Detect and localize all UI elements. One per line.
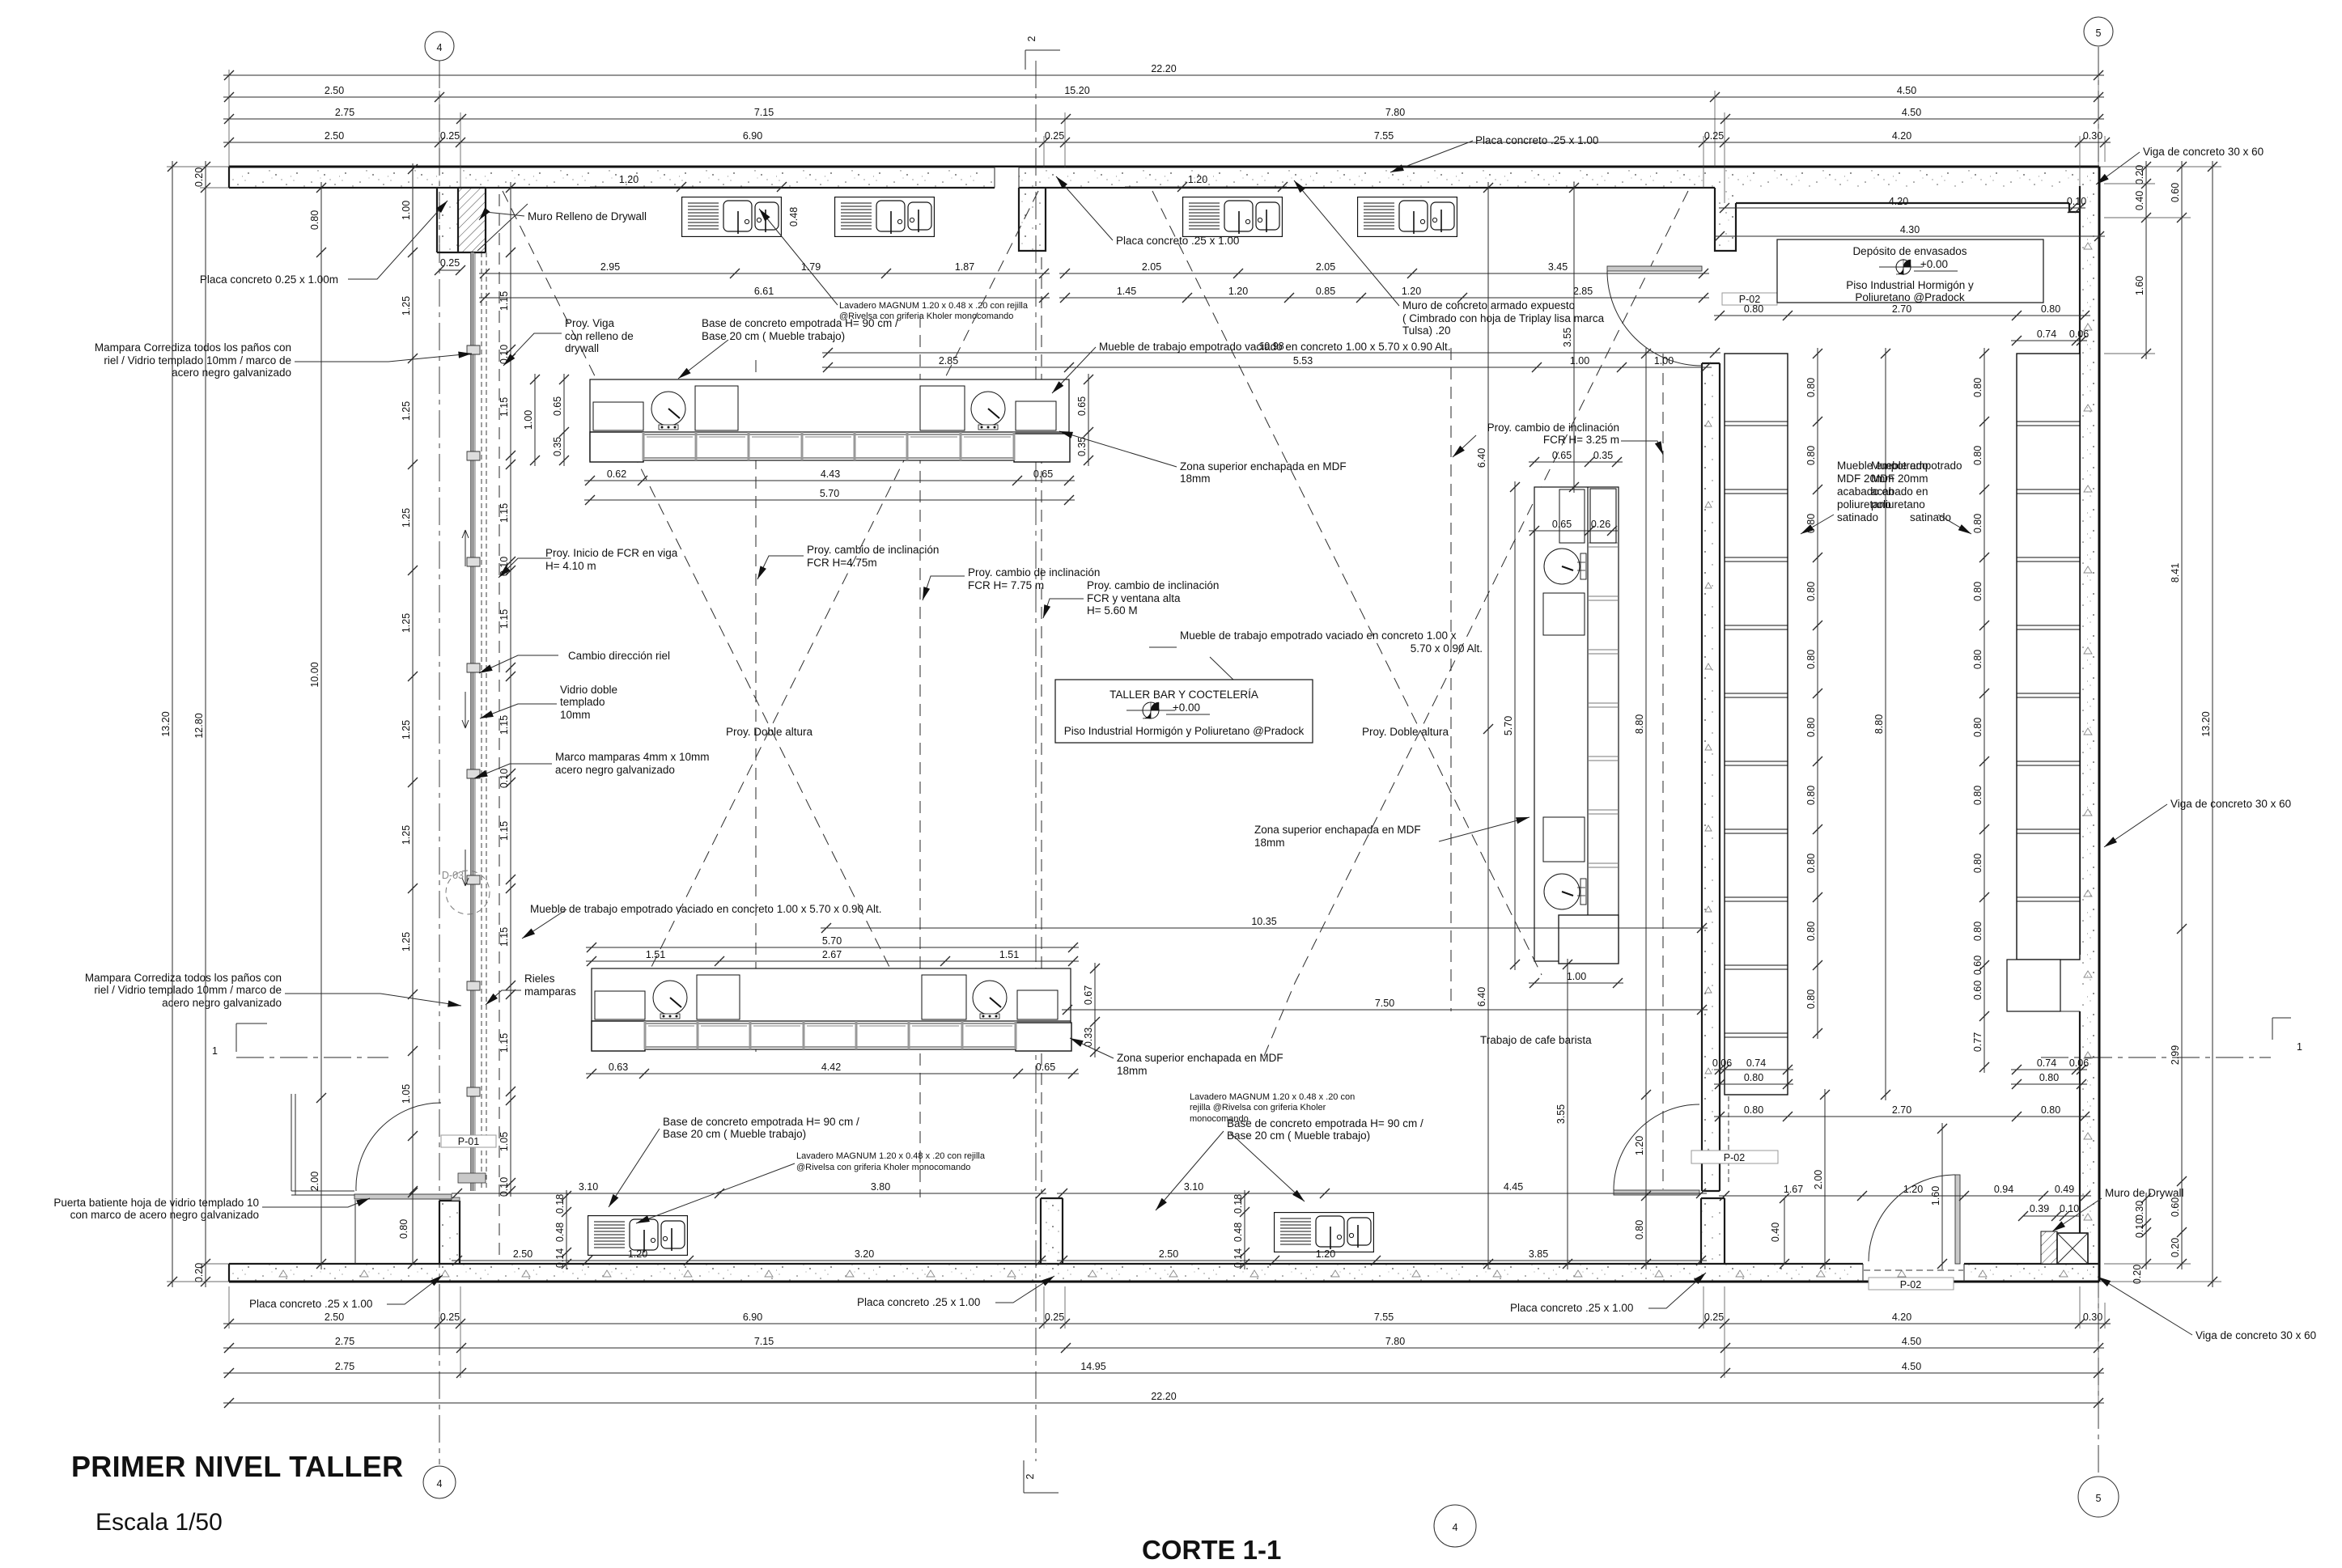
svg-text:0.80: 0.80 bbox=[1805, 718, 1817, 737]
svg-text:Tulsa) .20: Tulsa) .20 bbox=[1402, 324, 1451, 337]
right outer wall bbox=[2060, 167, 2099, 1282]
dim row 0.65/0.26 central bench bbox=[1529, 519, 1618, 536]
svg-text:Placa concreto .25 x 1.00: Placa concreto .25 x 1.00 bbox=[1510, 1302, 1633, 1314]
left wall stub drywall hatch bbox=[437, 188, 486, 252]
room label box TALLER BAR Y COCTELERIA bbox=[1055, 680, 1313, 743]
dim col 2.00 right room bbox=[1813, 1089, 1830, 1269]
door label P-02 middle bbox=[1691, 1151, 1778, 1163]
svg-text:riel / Vidrio templado 10mm /: riel / Vidrio templado 10mm / marco de bbox=[94, 984, 282, 996]
svg-text:satinado: satinado bbox=[1837, 511, 1878, 523]
svg-text:0.40: 0.40 bbox=[2134, 191, 2145, 210]
svg-text:Cambio dirección riel: Cambio dirección riel bbox=[568, 650, 670, 662]
svg-text:templado: templado bbox=[560, 696, 605, 708]
leader vidrio doble bbox=[480, 704, 557, 718]
right room partition wall bbox=[1702, 363, 1720, 1191]
leader FCR 3.25 b bbox=[1453, 435, 1476, 457]
svg-text:0.60: 0.60 bbox=[1972, 981, 1983, 1000]
leader placa concreto bottom middle bbox=[995, 1276, 1054, 1303]
svg-text:1: 1 bbox=[212, 1045, 218, 1057]
svg-text:0.20: 0.20 bbox=[2134, 165, 2145, 184]
svg-text:5: 5 bbox=[2096, 1493, 2102, 1504]
svg-text:4.20: 4.20 bbox=[1892, 130, 1911, 142]
svg-text:Placa concreto 0.25 x 1.00m: Placa concreto 0.25 x 1.00m bbox=[200, 273, 338, 286]
work bench lower (mueble de trabajo) bbox=[592, 968, 1071, 1051]
double height X right diagonal 1 bbox=[1152, 191, 1542, 975]
leader mueble right elbow bbox=[1149, 646, 1177, 648]
svg-text:0.94: 0.94 bbox=[1994, 1184, 2013, 1195]
svg-text:2.85: 2.85 bbox=[1573, 286, 1593, 297]
label FCR 4.75 bbox=[807, 544, 939, 569]
svg-text:FCR H= 7.75 m: FCR H= 7.75 m bbox=[968, 579, 1044, 591]
dim row detail bottom bbox=[223, 1312, 2111, 1329]
svg-text:0.80: 0.80 bbox=[1972, 786, 1983, 805]
svg-text:3.55: 3.55 bbox=[1555, 1104, 1567, 1124]
dim col 1.15 mampara series bbox=[499, 182, 515, 1197]
right room top wall inner leaf bbox=[1736, 203, 2080, 212]
svg-text:0.48: 0.48 bbox=[788, 207, 800, 227]
leader mampara corrediza top bbox=[295, 354, 472, 362]
svg-text:Muro de concreto armado expues: Muro de concreto armado expuesto bbox=[1402, 299, 1575, 311]
shelf column left (mueble empotrado MDF) bbox=[1725, 354, 1788, 1095]
dim row 1.00 central bench bbox=[1529, 971, 1623, 988]
label FCR 3.25 bbox=[1487, 422, 1619, 446]
dim row 4.30 right room bbox=[1714, 224, 2105, 241]
svg-text:Mampara Corrediza todos los pa: Mampara Corrediza todos los paños con bbox=[85, 972, 282, 984]
svg-text:+0.00: +0.00 bbox=[1920, 258, 1948, 270]
svg-text:0.80: 0.80 bbox=[1972, 718, 1983, 737]
grid bubble 5 top bbox=[2084, 17, 2113, 46]
dim row 22.20 bottom bbox=[223, 1391, 2104, 1408]
svg-text:5.70: 5.70 bbox=[1503, 716, 1514, 735]
svg-text:0.25: 0.25 bbox=[1045, 1312, 1064, 1323]
svg-text:Mueble de trabajo empotrado va: Mueble de trabajo empotrado vaciado en c… bbox=[1180, 629, 1457, 642]
dim col 13.20 right bbox=[2200, 161, 2217, 1287]
dim col 0.65/0.35 bench R1 right bbox=[1076, 374, 1093, 466]
svg-text:4.50: 4.50 bbox=[1902, 1336, 1921, 1347]
projection dashed line x934 bbox=[755, 360, 757, 1052]
leader placa concreto bottom left bbox=[387, 1275, 443, 1304]
dim col 1.00 bench R1 bbox=[523, 374, 540, 466]
dim row 4.20/0.10 right room bbox=[1719, 196, 2086, 213]
dim 0.80 bottom left door bbox=[398, 1188, 418, 1269]
leader lavadero top bbox=[759, 209, 838, 305]
svg-text:2.85: 2.85 bbox=[939, 355, 958, 367]
svg-text:5: 5 bbox=[2096, 28, 2102, 39]
svg-text:1.15: 1.15 bbox=[499, 609, 510, 629]
leader viga bottom right bbox=[2098, 1277, 2192, 1335]
leader marco mamparas bbox=[474, 764, 552, 778]
svg-text:5.70 x 0.90 Alt.: 5.70 x 0.90 Alt. bbox=[1411, 642, 1483, 655]
leader FCR 5.60 bbox=[1043, 599, 1084, 618]
dim row 1.45-2.85 bbox=[1059, 286, 1709, 303]
svg-text:rejilla @Rivelsa con griferia: rejilla @Rivelsa con griferia Kholer bbox=[1190, 1103, 1326, 1112]
bottom-left sill return bbox=[291, 1094, 354, 1195]
svg-text:0.80: 0.80 bbox=[309, 210, 320, 230]
dim col 3.55 upper bbox=[1562, 182, 1579, 493]
svg-text:0.25: 0.25 bbox=[1704, 130, 1724, 142]
dim col 0.30/0.10 right bottom bbox=[2134, 1193, 2151, 1269]
svg-text:2.50: 2.50 bbox=[325, 85, 344, 96]
svg-text:6.90: 6.90 bbox=[743, 1312, 762, 1323]
dim 0.40 bottom right room bbox=[1770, 1193, 1789, 1269]
dim row 10.98 bbox=[822, 341, 1720, 358]
svg-text:4.50: 4.50 bbox=[1902, 1361, 1921, 1372]
dim row 0.63/4.42/0.65 bbox=[586, 1062, 1079, 1079]
label proy inicio FCR bbox=[545, 547, 678, 572]
sink lavadero T3 bbox=[1183, 197, 1283, 237]
door label P-02 bottom bbox=[1869, 1278, 1954, 1290]
svg-text:1.60: 1.60 bbox=[2134, 276, 2145, 295]
grid line 5 vertical bbox=[2098, 47, 2099, 1476]
double height X right diagonal 2 bbox=[1262, 191, 1688, 1060]
bottom wall pier right of opening 4.45 bbox=[1701, 1198, 1725, 1265]
leader viga right middle bbox=[2104, 804, 2167, 847]
svg-text:8.80: 8.80 bbox=[1634, 714, 1645, 734]
svg-text:4.50: 4.50 bbox=[1902, 107, 1921, 118]
svg-text:2.05: 2.05 bbox=[1316, 261, 1335, 273]
svg-text:Proy. Viga: Proy. Viga bbox=[565, 317, 615, 329]
dim row 6.61 bbox=[479, 286, 1050, 303]
mampara bottom end block bbox=[458, 1173, 486, 1183]
dim col 5.70 central bench bbox=[1503, 481, 1520, 970]
bottom-left concrete stub pier bbox=[439, 1201, 460, 1264]
svg-text:0.80: 0.80 bbox=[2041, 303, 2060, 315]
dim row 1.67/1.20/0.94/0.49 bbox=[1719, 1184, 2091, 1201]
svg-text:7.55: 7.55 bbox=[1374, 1312, 1394, 1323]
leader lavadero bottom right bbox=[1230, 1133, 1305, 1201]
svg-text:0.30: 0.30 bbox=[2083, 130, 2102, 142]
svg-text:1.15: 1.15 bbox=[499, 397, 510, 417]
door P-02 middle leaf and swing bbox=[1614, 1104, 1699, 1195]
dim row 2.50/1.20/3.20 bbox=[452, 1248, 1046, 1265]
svg-text:1.51: 1.51 bbox=[999, 949, 1019, 960]
top wall pier at grid 2 bbox=[1019, 188, 1046, 251]
svg-text:0.80: 0.80 bbox=[1972, 514, 1983, 533]
svg-text:12.80: 12.80 bbox=[193, 713, 205, 738]
door P-01 leaf and swing bbox=[354, 1103, 460, 1201]
leader lavadero bottom left bbox=[636, 1163, 795, 1223]
dim row 2.75/7.15/7.80/4.50 top bbox=[223, 107, 2104, 124]
label zona superior MDF top bbox=[1180, 460, 1347, 485]
svg-text:Piso Industrial Hormigón y Pol: Piso Industrial Hormigón y Poliuretano @… bbox=[1064, 725, 1305, 737]
door label P-01 bbox=[441, 1135, 496, 1147]
dim row detail top bbox=[223, 130, 2111, 147]
leader puerta batiente bbox=[262, 1198, 370, 1207]
svg-text:mamparas: mamparas bbox=[524, 985, 576, 998]
bottom dim extension lines bbox=[229, 1286, 2105, 1408]
mampara panel joints bbox=[467, 345, 480, 1096]
leader viga top right bbox=[2096, 152, 2140, 184]
top wall opening at grid 2 bbox=[995, 167, 1019, 188]
label FCR 5.60 bbox=[1087, 579, 1219, 617]
dim row 5.70 lower bench bbox=[586, 935, 1079, 952]
svg-text:3.20: 3.20 bbox=[855, 1248, 874, 1260]
svg-text:0.25: 0.25 bbox=[440, 130, 460, 142]
svg-text:0.65: 0.65 bbox=[1033, 468, 1053, 480]
svg-text:acabado en: acabado en bbox=[1871, 485, 1928, 498]
projection dashed line x1287 bbox=[1041, 257, 1042, 1193]
svg-text:Trabajo de cafe barista: Trabajo de cafe barista bbox=[1480, 1034, 1592, 1046]
svg-text:Mueble de trabajo empotrado va: Mueble de trabajo empotrado vaciado en c… bbox=[530, 903, 882, 915]
svg-text:10.00: 10.00 bbox=[309, 662, 320, 687]
left dim extension lines bbox=[167, 167, 229, 1282]
svg-text:0.26: 0.26 bbox=[1591, 519, 1610, 530]
svg-text:0.06: 0.06 bbox=[2069, 1057, 2089, 1069]
svg-text:0.20: 0.20 bbox=[2132, 1265, 2143, 1284]
svg-text:2.00: 2.00 bbox=[309, 1172, 320, 1191]
dim row 0.80 bottom left col bbox=[1714, 1072, 1793, 1089]
leader base de concreto bottom right bbox=[1156, 1131, 1224, 1210]
projection dashed line x1793 bbox=[1450, 348, 1452, 1011]
svg-text:22.20: 22.20 bbox=[1151, 1391, 1176, 1402]
svg-text:1.20: 1.20 bbox=[1634, 1136, 1645, 1155]
svg-text:0.30: 0.30 bbox=[2134, 1201, 2145, 1220]
svg-text:0.25: 0.25 bbox=[440, 1312, 460, 1323]
svg-text:4.50: 4.50 bbox=[1897, 85, 1916, 96]
dim col 6.40 pair bbox=[1476, 182, 1493, 1269]
svg-text:2.70: 2.70 bbox=[1892, 303, 1911, 315]
section marker 1 left bbox=[212, 1023, 267, 1057]
svg-text:2.99: 2.99 bbox=[2170, 1045, 2181, 1065]
leader zona superior top bbox=[1059, 431, 1177, 467]
svg-text:0.63: 0.63 bbox=[609, 1062, 628, 1073]
svg-text:1.05: 1.05 bbox=[401, 1084, 412, 1104]
dim col 0.80/10.00/2.00 left bbox=[309, 182, 326, 1269]
svg-text:4.20: 4.20 bbox=[1889, 196, 1908, 207]
leader mampara corrediza bottom bbox=[285, 994, 461, 1006]
right room left wall stub bbox=[1715, 188, 1736, 251]
svg-text:3.10: 3.10 bbox=[1184, 1181, 1203, 1193]
dim 0.25 left stub bbox=[435, 257, 465, 275]
label muro de concreto armado bbox=[1402, 299, 1605, 337]
double height X left diagonal 2 bbox=[651, 191, 1038, 967]
svg-text:0.48: 0.48 bbox=[1233, 1223, 1244, 1242]
svg-text:0.14: 0.14 bbox=[554, 1248, 566, 1268]
label vidrio doble bbox=[560, 684, 617, 721]
svg-text:0.10: 0.10 bbox=[499, 769, 510, 788]
door label P-02 top bbox=[1722, 293, 1777, 305]
grid bubble 4 corte bbox=[1434, 1505, 1476, 1547]
svg-text:0.80: 0.80 bbox=[1805, 854, 1817, 873]
svg-text:Mueble de trabajo empotrado va: Mueble de trabajo empotrado vaciado en c… bbox=[1099, 341, 1451, 353]
projection dashed line viga x617 bbox=[499, 194, 500, 1262]
svg-text:0.80: 0.80 bbox=[398, 1219, 409, 1239]
svg-text:2.50: 2.50 bbox=[1159, 1248, 1178, 1260]
svg-text:Viga de concreto 30 x 60: Viga de concreto 30 x 60 bbox=[2196, 1329, 2316, 1341]
svg-text:FCR H= 3.25 m: FCR H= 3.25 m bbox=[1543, 434, 1619, 446]
svg-text:0.14: 0.14 bbox=[1233, 1248, 1244, 1268]
svg-text:acero negro galvanizado: acero negro galvanizado bbox=[172, 367, 291, 379]
svg-text:H= 4.10 m: H= 4.10 m bbox=[545, 560, 596, 572]
svg-text:1.25: 1.25 bbox=[401, 825, 412, 845]
svg-text:0.25: 0.25 bbox=[1704, 1312, 1724, 1323]
leader muro de drywall bbox=[2052, 1198, 2102, 1231]
svg-text:0.20: 0.20 bbox=[193, 1263, 205, 1282]
leader base de concreto bottom left bbox=[609, 1129, 660, 1207]
dim row 0.74/0.06 top right bbox=[2011, 328, 2089, 345]
svg-text:1.20: 1.20 bbox=[1903, 1184, 1923, 1195]
leader base de concreto top bbox=[678, 340, 728, 379]
svg-text:2.95: 2.95 bbox=[600, 261, 620, 273]
svg-text:3.85: 3.85 bbox=[1529, 1248, 1548, 1260]
svg-text:P-02: P-02 bbox=[1724, 1152, 1745, 1163]
door P-02 top leaf and swing bbox=[1607, 266, 1702, 366]
svg-text:7.55: 7.55 bbox=[1374, 130, 1394, 142]
projection dashed line x1137 bbox=[919, 316, 921, 1197]
shelf column right (mueble empotrado MDF) bbox=[2017, 354, 2080, 960]
dim col 0.20/0.40/1.60 right bbox=[2134, 161, 2151, 359]
svg-text:4: 4 bbox=[1453, 1522, 1458, 1533]
svg-text:Muro de Drywall: Muro de Drywall bbox=[2105, 1187, 2184, 1199]
svg-text:0.65: 0.65 bbox=[1076, 396, 1088, 416]
dim col sink B2 bbox=[1233, 1190, 1249, 1269]
svg-text:Viga de concreto 30 x 60: Viga de concreto 30 x 60 bbox=[2143, 146, 2264, 158]
svg-text:CORTE 1-1: CORTE 1-1 bbox=[1142, 1535, 1281, 1565]
leader mueble de trabajo upper bbox=[1052, 347, 1096, 393]
svg-text:con relleno de: con relleno de bbox=[565, 330, 634, 342]
svg-text:0.80: 0.80 bbox=[1972, 650, 1983, 669]
svg-text:0.06: 0.06 bbox=[1712, 1057, 1732, 1069]
grid line 2 vertical bbox=[1035, 61, 1037, 1461]
label lavadero top bbox=[839, 301, 1029, 321]
door P-01 jamb line bbox=[354, 1200, 356, 1264]
dim row 0.80 bottom right col bbox=[2011, 1072, 2087, 1089]
svg-text:1.15: 1.15 bbox=[499, 1033, 510, 1053]
section marker 1 right bbox=[2272, 1018, 2302, 1053]
dim row 1.51/2.67/1.51 bbox=[586, 949, 1079, 966]
svg-text:0.80: 0.80 bbox=[1972, 922, 1983, 941]
dim col 0.80 series shelf right bbox=[1972, 348, 1989, 1073]
svg-text:0.40: 0.40 bbox=[1770, 1223, 1781, 1242]
svg-text:D-03: D-03 bbox=[442, 870, 464, 881]
svg-text:1.20: 1.20 bbox=[1188, 174, 1207, 185]
svg-text:Proy. cambio de inclinación: Proy. cambio de inclinación bbox=[1487, 422, 1619, 434]
svg-text:Base 20 cm ( Mueble trabajo): Base 20 cm ( Mueble trabajo) bbox=[1227, 1129, 1370, 1142]
svg-text:0.62: 0.62 bbox=[607, 468, 626, 480]
svg-text:0.80: 0.80 bbox=[1805, 922, 1817, 941]
grid bubble 5 bottom bbox=[2078, 1477, 2119, 1517]
svg-text:P-02: P-02 bbox=[1900, 1279, 1921, 1290]
svg-text:2.50: 2.50 bbox=[325, 1312, 344, 1323]
svg-text:1.79: 1.79 bbox=[801, 261, 821, 273]
label FCR 7.75 bbox=[968, 566, 1100, 591]
dim col 1.25 series left bbox=[401, 163, 418, 1197]
svg-text:@Rivelsa con griferia Kholer m: @Rivelsa con griferia Kholer monocomando bbox=[796, 1163, 970, 1172]
svg-text:1.20: 1.20 bbox=[1228, 286, 1248, 297]
svg-text:0.77: 0.77 bbox=[1972, 1032, 1983, 1052]
svg-text:10mm: 10mm bbox=[560, 709, 591, 721]
dim col 0.80 series shelf left bbox=[1805, 348, 1822, 1039]
svg-text:1.25: 1.25 bbox=[401, 613, 412, 633]
dim row 0.65/0.35 central bench bbox=[1529, 450, 1623, 467]
svg-text:2.70: 2.70 bbox=[1892, 1104, 1911, 1116]
sink lavadero B1 bbox=[588, 1216, 688, 1256]
svg-text:0.80: 0.80 bbox=[1972, 378, 1983, 397]
mampara slide arrows bbox=[462, 530, 469, 886]
svg-text:0.10: 0.10 bbox=[2060, 1203, 2079, 1214]
svg-text:1.20: 1.20 bbox=[619, 174, 639, 185]
svg-text:Base 20 cm ( Mueble trabajo): Base 20 cm ( Mueble trabajo) bbox=[702, 330, 845, 342]
svg-text:0.25: 0.25 bbox=[440, 257, 460, 269]
svg-text:0.80: 0.80 bbox=[2041, 1104, 2060, 1116]
svg-text:Zona superior enchapada en MDF: Zona superior enchapada en MDF bbox=[1117, 1052, 1283, 1064]
svg-text:acero negro galvanizado: acero negro galvanizado bbox=[162, 997, 282, 1009]
svg-text:7.15: 7.15 bbox=[754, 1336, 774, 1347]
svg-text:0.06: 0.06 bbox=[2069, 328, 2089, 340]
svg-text:0.30: 0.30 bbox=[2083, 1312, 2102, 1323]
dim row 14.95 bottom bbox=[223, 1361, 2104, 1378]
svg-text:acero negro galvanizado: acero negro galvanizado bbox=[555, 764, 675, 776]
bottom wall concrete band bbox=[229, 1264, 2099, 1282]
dim row 2.85/5.53/1.00/1.00 bbox=[822, 355, 1712, 372]
leader FCR 4.75 bbox=[757, 556, 804, 579]
wall triangle marks bbox=[279, 243, 2092, 1277]
svg-text:Piso Industrial Hormigón y: Piso Industrial Hormigón y bbox=[1846, 279, 1974, 291]
label mueble de trabajo right bbox=[1180, 629, 1483, 655]
right dim extension lines bbox=[2099, 167, 2221, 1282]
svg-text:5.53: 5.53 bbox=[1293, 355, 1313, 367]
svg-text:0.80: 0.80 bbox=[1744, 1104, 1763, 1116]
leader mueble MDF right bbox=[1938, 515, 1971, 534]
svg-text:5.70: 5.70 bbox=[822, 935, 842, 947]
top dim extension lines bbox=[229, 70, 2105, 203]
svg-text:0.85: 0.85 bbox=[1316, 286, 1335, 297]
svg-text:1.20: 1.20 bbox=[1316, 1248, 1335, 1260]
label puerta batiente bbox=[53, 1197, 259, 1221]
svg-text:Muro Relleno de Drywall: Muro Relleno de Drywall bbox=[528, 210, 647, 222]
svg-text:7.80: 7.80 bbox=[1385, 107, 1405, 118]
svg-text:1.20: 1.20 bbox=[628, 1248, 647, 1260]
svg-text:1.25: 1.25 bbox=[401, 401, 412, 421]
svg-text:2.75: 2.75 bbox=[335, 1336, 354, 1347]
svg-text:0.80: 0.80 bbox=[1972, 446, 1983, 465]
svg-text:1.00: 1.00 bbox=[523, 410, 534, 430]
svg-text:3.55: 3.55 bbox=[1562, 328, 1573, 347]
svg-text:Placa concreto .25 x 1.00: Placa concreto .25 x 1.00 bbox=[1475, 134, 1598, 146]
svg-text:1.00: 1.00 bbox=[1654, 355, 1674, 367]
svg-text:PRIMER NIVEL TALLER: PRIMER NIVEL TALLER bbox=[71, 1450, 403, 1483]
svg-text:0.39: 0.39 bbox=[2030, 1203, 2049, 1214]
svg-text:0.35: 0.35 bbox=[1593, 450, 1613, 461]
label proy viga con relleno bbox=[565, 317, 634, 354]
svg-text:15.20: 15.20 bbox=[1064, 85, 1089, 96]
label mampara corrediza top bbox=[95, 341, 291, 379]
room label box Deposito de envasados bbox=[1777, 239, 2043, 303]
dim row 5.70 upper bench bbox=[584, 488, 1075, 505]
svg-text:Vidrio doble: Vidrio doble bbox=[560, 684, 617, 696]
svg-text:4.42: 4.42 bbox=[821, 1062, 841, 1073]
svg-text:monocomando: monocomando bbox=[1190, 1114, 1249, 1124]
svg-text:6.61: 6.61 bbox=[754, 286, 774, 297]
svg-text:1.00: 1.00 bbox=[1567, 971, 1586, 982]
leader placa concreto top left bbox=[348, 201, 448, 279]
label rieles mamparas bbox=[524, 973, 576, 998]
svg-text:Base 20 cm ( Mueble trabajo): Base 20 cm ( Mueble trabajo) bbox=[663, 1128, 806, 1140]
dim row 7.50 bbox=[1062, 998, 1708, 1015]
svg-text:Proy. Doble altura: Proy. Doble altura bbox=[1362, 726, 1449, 738]
shelf bottom block 0.60 right wall notch bbox=[2007, 960, 2060, 1011]
svg-text:1.15: 1.15 bbox=[499, 291, 510, 311]
mampara rail dashed lines bbox=[482, 252, 486, 1191]
svg-text:4: 4 bbox=[437, 1478, 443, 1490]
top wall concrete band bbox=[229, 167, 2099, 188]
svg-text:+0.00: +0.00 bbox=[1173, 701, 1200, 714]
svg-text:0.80: 0.80 bbox=[1805, 786, 1817, 805]
door P-02 bottom leaf and swing bbox=[1864, 1175, 1963, 1270]
svg-text:poliuretano: poliuretano bbox=[1871, 498, 1925, 511]
svg-text:Marco mamparas 4mm x 10mm: Marco mamparas 4mm x 10mm bbox=[555, 751, 710, 763]
svg-text:0.33: 0.33 bbox=[1083, 1028, 1094, 1047]
